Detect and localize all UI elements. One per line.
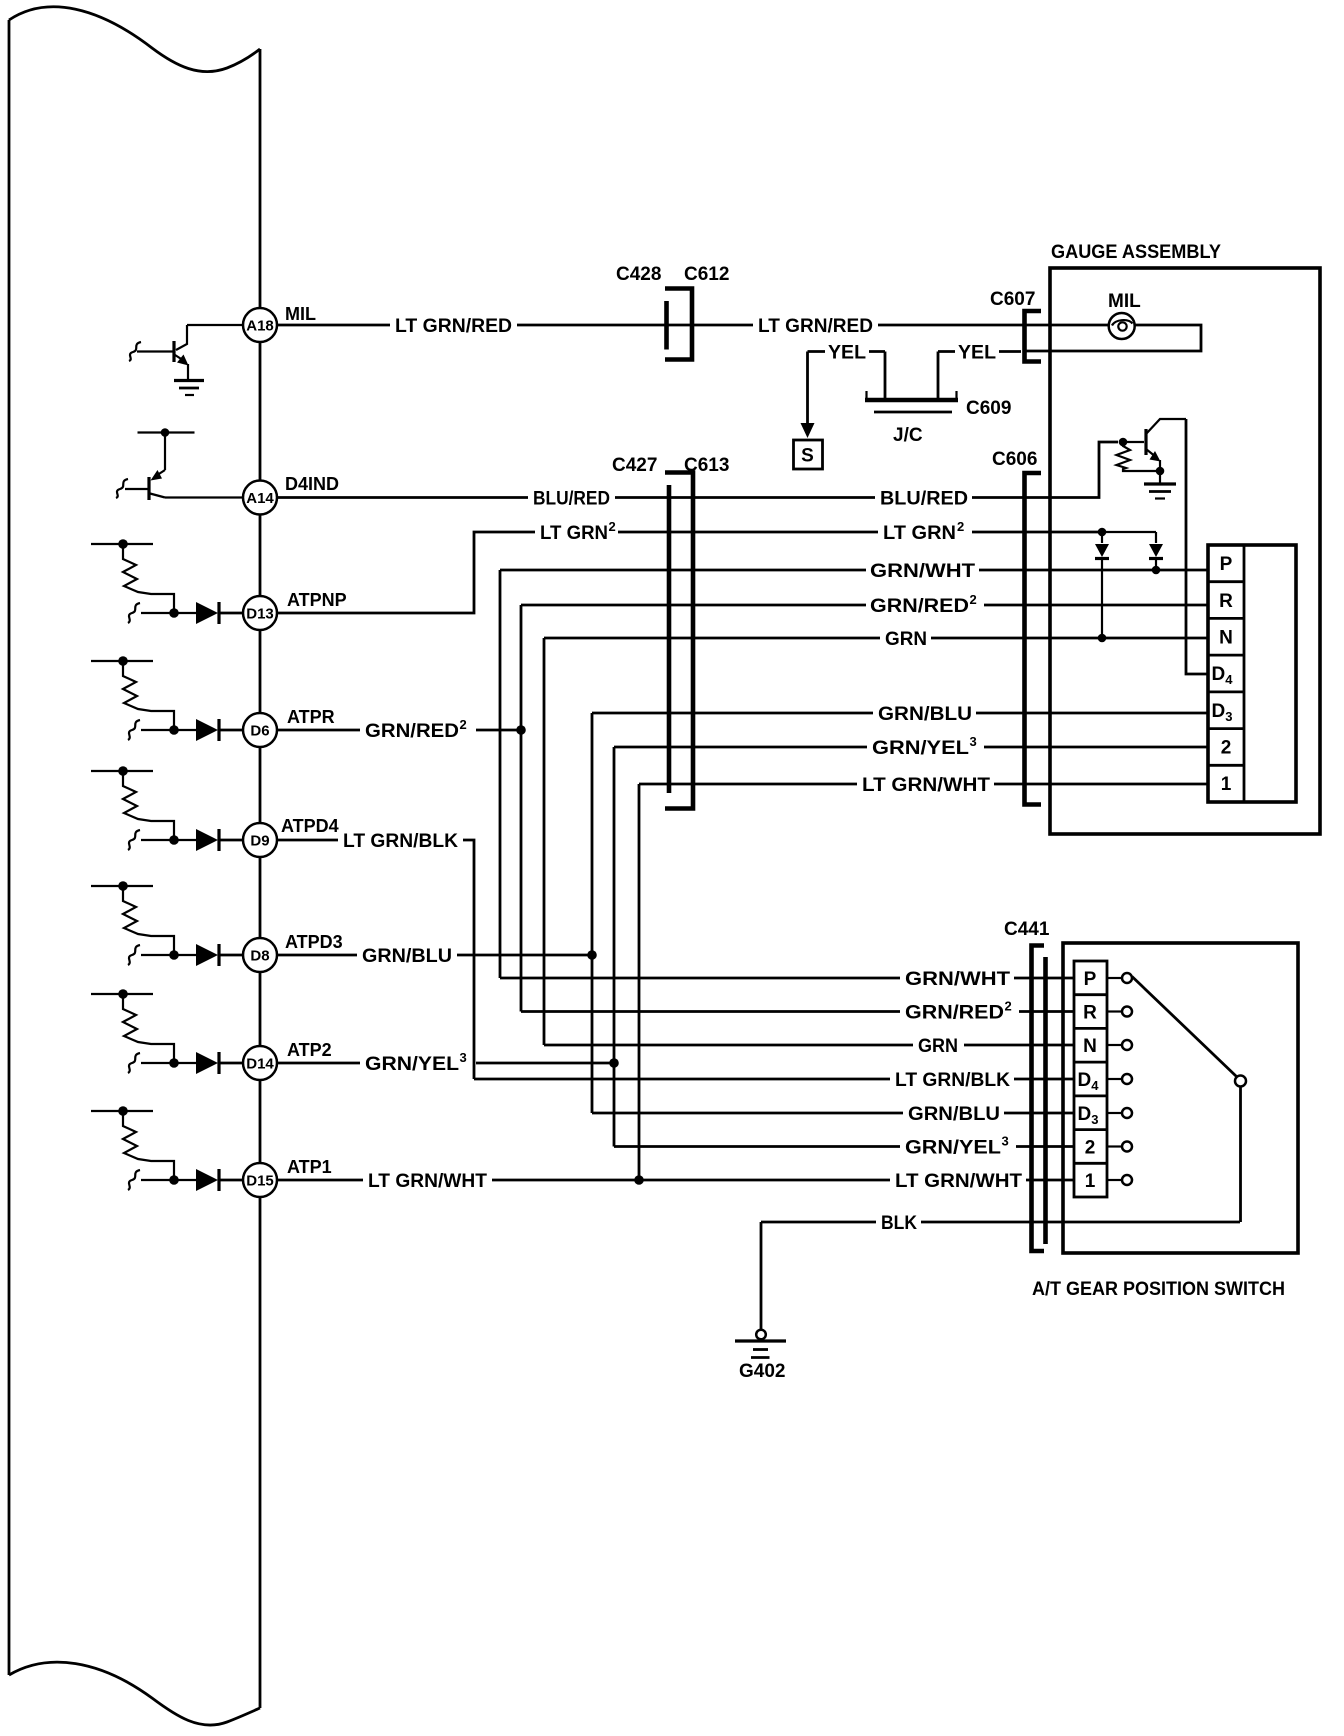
svg-text:YEL: YEL	[958, 343, 996, 364]
wire GRN: switch N row	[544, 1044, 913, 1047]
pin D15	[243, 1163, 277, 1197]
svg-text:LT GRN/WHT: LT GRN/WHT	[895, 1171, 1022, 1192]
svg-text:3: 3	[970, 734, 977, 749]
wire GRN/WHT: switch P row	[500, 977, 900, 980]
svg-text:2: 2	[1085, 1138, 1096, 1159]
svg-text:D15: D15	[246, 1173, 274, 1190]
pin D8 sub-circuit (resistor + diode)	[91, 881, 243, 966]
wire YEL from J/C to S splice	[869, 352, 885, 399]
svg-text:GRN/YEL: GRN/YEL	[905, 1138, 1001, 1159]
pin D14	[243, 1046, 277, 1080]
svg-text:GRN/RED: GRN/RED	[365, 721, 459, 742]
pin D6	[243, 713, 277, 747]
svg-text:LT GRN/WHT: LT GRN/WHT	[368, 1171, 487, 1192]
wire lamp return YEL loop to C607	[1025, 325, 1201, 351]
wire A18 collector to pin	[187, 324, 243, 326]
GAUGE ASSEMBLY box	[1050, 268, 1320, 834]
pin D9	[243, 823, 277, 857]
svg-text:N: N	[1219, 628, 1233, 649]
S splice box	[794, 440, 823, 469]
svg-text:GRN/WHT: GRN/WHT	[905, 969, 1010, 990]
wire YEL from C607 to J/C	[999, 350, 1021, 353]
ECM module torn boundary: top wavy edge	[9, 7, 260, 72]
svg-text:LT GRN/BLK: LT GRN/BLK	[895, 1070, 1010, 1091]
svg-text:C428: C428	[616, 264, 661, 285]
pin A18	[243, 308, 277, 342]
wire GRN vertical	[543, 638, 546, 1045]
wire GRN/YEL3 vertical	[613, 747, 616, 1147]
svg-text:3: 3	[1002, 1134, 1009, 1149]
svg-text:YEL: YEL	[828, 343, 866, 364]
wire LT GRN/WHT: gauge 1 row	[639, 783, 857, 786]
pin D13 sub-circuit (resistor + diode)	[91, 539, 243, 624]
ECM internal transistor at pin A18 (MIL driver)	[129, 325, 189, 380]
svg-text:J/C: J/C	[893, 425, 923, 446]
svg-text:BLU/RED: BLU/RED	[880, 489, 968, 510]
svg-text:A18: A18	[246, 318, 274, 335]
svg-text:ATPNP: ATPNP	[287, 590, 347, 610]
wire ATP1 net LT GRN/WHT: pin D15 to switch 1 row	[277, 1179, 363, 1182]
junction GRN/YEL3	[609, 1058, 619, 1068]
gauge internal transistor (D4 indicator driver)	[1119, 419, 1186, 475]
svg-text:ATP2: ATP2	[287, 1040, 332, 1060]
wire GRN/BLU vertical	[591, 713, 594, 1113]
switch wiper common lead	[1239, 1087, 1242, 1223]
wire ATPD4 net LT GRN/BLK: pin D9	[277, 839, 338, 842]
ground (gauge transistor emitter)	[1144, 471, 1176, 499]
svg-text:D3: D3	[1212, 701, 1233, 724]
connector C606	[1025, 473, 1042, 805]
junction GRN/RED2	[516, 725, 526, 735]
svg-text:GRN/BLU: GRN/BLU	[878, 704, 972, 725]
svg-text:GRN: GRN	[885, 629, 927, 650]
junction GRN/BLU	[587, 950, 597, 960]
switch wiper pivot	[1235, 1076, 1246, 1087]
pin D9 sub-circuit (resistor + diode)	[91, 766, 243, 851]
svg-text:C441: C441	[1004, 919, 1050, 940]
ground G402	[735, 1330, 786, 1358]
wire GRN/WHT vertical	[499, 570, 502, 978]
svg-text:A14: A14	[246, 490, 274, 507]
wire GRN/RED2 vertical	[520, 605, 523, 1012]
connector C427	[667, 485, 672, 793]
svg-text:D8: D8	[250, 948, 269, 965]
svg-text:3: 3	[460, 1050, 467, 1065]
svg-text:1: 1	[1085, 1171, 1096, 1192]
junction LT GRN2 inside gauge	[1098, 528, 1107, 537]
svg-text:P: P	[1220, 554, 1233, 575]
wire GRN/RED2 net: gauge R row	[521, 604, 866, 607]
svg-text:2: 2	[970, 592, 977, 607]
wire LT GRN/WHT vertical	[638, 784, 641, 1180]
svg-text:D14: D14	[246, 1056, 274, 1073]
connector C441	[1032, 946, 1045, 1252]
connector C613	[665, 473, 693, 809]
wire ATPD3 net GRN/BLU: pin D8	[277, 954, 357, 957]
pin D15 sub-circuit (resistor + diode)	[91, 1106, 243, 1191]
wire GRN/WHT net: gauge P row	[500, 569, 866, 572]
wire GRN/YEL3: gauge 2 row	[614, 746, 867, 749]
arrow into S	[801, 423, 815, 438]
svg-text:GRN: GRN	[918, 1036, 958, 1057]
svg-text:1: 1	[1221, 774, 1232, 795]
svg-text:D9: D9	[250, 833, 269, 850]
connector C612	[665, 289, 692, 360]
svg-text:C606: C606	[992, 449, 1037, 470]
svg-text:D4: D4	[1078, 1070, 1100, 1093]
svg-text:S: S	[801, 446, 814, 467]
svg-text:GRN/WHT: GRN/WHT	[870, 561, 975, 582]
svg-text:MIL: MIL	[1108, 291, 1141, 312]
gauge diode to P (right)	[1102, 532, 1163, 574]
svg-text:A/T GEAR POSITION SWITCH: A/T GEAR POSITION SWITCH	[1032, 1279, 1285, 1300]
wire GRN/YEL3: switch 2 row	[614, 1145, 900, 1148]
wire gauge D4 drive: collector down to D4 cell	[1186, 419, 1208, 674]
wire ATPR pin D6 to junction	[277, 729, 360, 732]
svg-text:D6: D6	[250, 723, 269, 740]
svg-text:G402: G402	[739, 1361, 785, 1382]
svg-text:ATPD4: ATPD4	[281, 816, 339, 836]
svg-text:GRN/RED: GRN/RED	[870, 596, 969, 617]
gauge diode to N (left)	[1095, 532, 1109, 642]
wire D4IND net BLU/RED: pin A14 to C427	[277, 496, 528, 499]
svg-text:GRN/RED: GRN/RED	[905, 1003, 1004, 1024]
wire BLK: switch common to ground	[761, 1221, 876, 1224]
junction LT GRN/WHT	[634, 1175, 644, 1185]
wire GRN/BLU: switch D3 row	[592, 1112, 903, 1115]
ECM module torn boundary: left edge	[8, 20, 11, 1675]
wire GRN/RED2: switch R row	[521, 1010, 900, 1013]
MIL indicator lamp inside gauge	[1109, 313, 1135, 339]
connector C607	[1025, 311, 1042, 362]
svg-text:2: 2	[1005, 999, 1012, 1014]
wire ATP2 net GRN/YEL3: pin D14	[277, 1062, 360, 1065]
svg-text:LT GRN: LT GRN	[540, 523, 608, 544]
svg-text:GRN/YEL: GRN/YEL	[365, 1054, 459, 1075]
switch wiper arm	[1132, 977, 1237, 1078]
ECM internal transistor at pin A14 (D4IND driver, PNP)	[116, 428, 195, 500]
wire MIL net LT GRN/RED: pin A18 to C428	[277, 324, 390, 327]
pin D6 sub-circuit (resistor + diode)	[91, 656, 243, 741]
svg-text:2: 2	[1221, 738, 1232, 759]
wire LT GRN/BLK: switch D4 row	[474, 1078, 890, 1081]
ECM module torn boundary: bottom wavy edge	[9, 1662, 260, 1725]
gauge indicator cells column	[1208, 545, 1244, 802]
svg-text:GAUGE ASSEMBLY: GAUGE ASSEMBLY	[1051, 242, 1221, 263]
svg-text:LT GRN/RED: LT GRN/RED	[758, 316, 873, 337]
svg-text:MIL: MIL	[285, 304, 316, 324]
connector C428	[664, 301, 669, 350]
svg-text:ATP1: ATP1	[287, 1157, 332, 1177]
svg-text:D4: D4	[1212, 664, 1234, 687]
wire GRN net: gauge N row	[544, 637, 880, 640]
ECM pin rail	[259, 49, 262, 1708]
svg-text:R: R	[1219, 591, 1233, 612]
pin D8	[243, 938, 277, 972]
gauge gear indicator block outer box	[1208, 545, 1296, 802]
svg-text:R: R	[1083, 1003, 1097, 1024]
svg-text:N: N	[1083, 1036, 1097, 1057]
svg-text:BLU/RED: BLU/RED	[533, 489, 610, 510]
svg-text:D4IND: D4IND	[285, 474, 339, 494]
svg-text:GRN/YEL: GRN/YEL	[872, 738, 969, 759]
svg-text:C607: C607	[990, 289, 1035, 310]
wire GRN/BLU: gauge D3 row	[592, 712, 873, 715]
switch contact cells column	[1074, 961, 1107, 1197]
gauge resistor (base-emitter)	[1117, 442, 1157, 471]
switch contact stubs and terminals	[1107, 973, 1132, 1185]
pin D13	[243, 596, 277, 630]
pin A14	[243, 481, 277, 515]
svg-text:ATPR: ATPR	[287, 707, 335, 727]
wire ATPNP / LT GRN2 net: pin D13 up to gauge row	[277, 532, 535, 613]
svg-text:C613: C613	[684, 455, 729, 476]
svg-text:LT GRN/BLK: LT GRN/BLK	[343, 831, 458, 852]
svg-text:D3: D3	[1078, 1104, 1099, 1127]
svg-text:2: 2	[460, 717, 467, 732]
svg-text:GRN/BLU: GRN/BLU	[362, 946, 452, 967]
svg-text:2: 2	[957, 519, 964, 534]
A/T GEAR POSITION SWITCH box	[1063, 943, 1298, 1253]
svg-text:LT GRN/WHT: LT GRN/WHT	[862, 775, 990, 796]
svg-text:C609: C609	[966, 398, 1011, 419]
svg-text:P: P	[1084, 969, 1097, 990]
svg-text:GRN/BLU: GRN/BLU	[908, 1104, 1000, 1125]
junction connector C609 (J/C)	[865, 391, 958, 412]
svg-text:C427: C427	[612, 455, 657, 476]
svg-text:LT GRN/RED: LT GRN/RED	[395, 316, 512, 337]
ground (A18 transistor emitter)	[174, 381, 204, 396]
svg-text:BLK: BLK	[881, 1213, 917, 1234]
svg-text:ATPD3: ATPD3	[285, 932, 343, 952]
svg-text:2: 2	[609, 519, 616, 534]
pin D14 sub-circuit (resistor + diode)	[91, 989, 243, 1074]
wire A14 collector to pin	[165, 496, 243, 498]
svg-text:D13: D13	[246, 606, 274, 623]
svg-text:C612: C612	[684, 264, 729, 285]
svg-text:LT GRN: LT GRN	[883, 523, 956, 544]
